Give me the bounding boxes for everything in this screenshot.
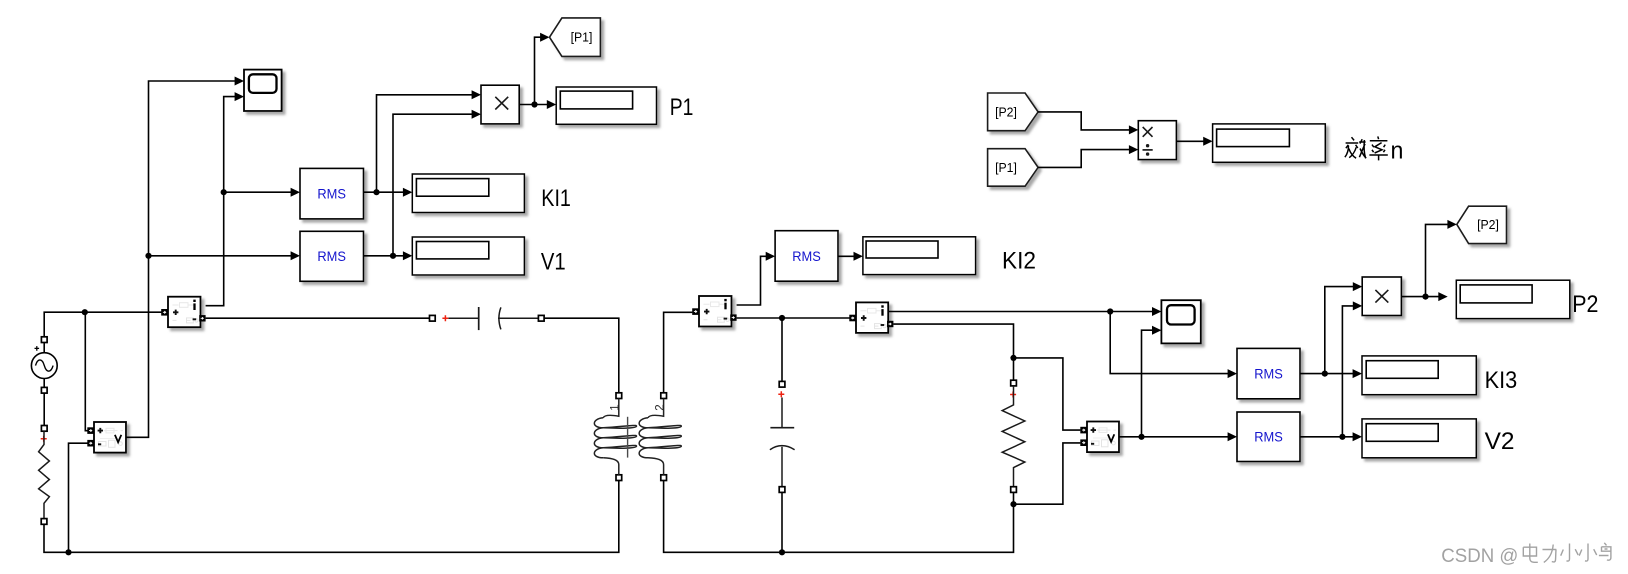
wire: I3 minus to load resistor R2 [893, 324, 1013, 355]
junction node L (V2- tap) [1010, 501, 1016, 507]
junction node C (RMS2 tap) [145, 251, 300, 260]
ammeter I1 [161, 297, 205, 328]
label KI1 [541, 186, 571, 212]
label V1 [541, 249, 566, 275]
wire: V2+ tap [1014, 358, 1081, 430]
watermark hanzi li [1543, 545, 1557, 563]
wire: V2- tap [1014, 443, 1081, 504]
wire: V2 out to RMS5 [1119, 432, 1237, 441]
RMS block RMS4 [1237, 348, 1300, 398]
wire: divide to efficiency display [1176, 137, 1212, 146]
svg-text:KI1: KI1 [541, 186, 571, 212]
wire: V1 out to scope/RMS2 riser [126, 81, 242, 437]
svg-text:[P1]: [P1] [571, 30, 593, 45]
RMS block RMS2 [300, 231, 364, 281]
watermark hanzi niao [1599, 543, 1611, 560]
wire: I3 signal to scope2 [888, 307, 1161, 316]
junction node F [390, 110, 481, 259]
resistor R1 [39, 426, 50, 525]
RMS block RMS5 [1237, 412, 1300, 462]
wire: I1 signal to scope1/RMS1 riser [206, 97, 243, 306]
display V2 [1362, 419, 1476, 458]
secondary winding [639, 399, 681, 475]
watermark hanzi xiao2 [1579, 544, 1596, 562]
svg-text:[P2]: [P2] [1477, 217, 1499, 232]
svg-text:RMS: RMS [317, 186, 346, 202]
display efficiency n [1213, 124, 1326, 162]
wire: secondary bottom rail [664, 481, 1014, 553]
watermark CSDN [1441, 545, 1518, 567]
wire: RMS4 to display KI3 [1300, 369, 1362, 378]
voltmeter V1 [87, 422, 126, 453]
svg-text:CSDN @: CSDN @ [1441, 545, 1518, 567]
junction node G [531, 33, 549, 108]
label KI2 [1002, 249, 1036, 275]
wire: from [P1] to divide [1038, 145, 1138, 167]
junction node N [1322, 282, 1362, 377]
wire: product U2 to display P2 [1401, 292, 1447, 301]
wire: product U1 to display P1 [519, 100, 556, 109]
display P2 [1456, 280, 1570, 318]
scope Scope1 [235, 70, 282, 111]
label efficiency: hanzi xiao [1345, 137, 1366, 158]
wire: primary bottom rail [44, 480, 619, 552]
junction node B (V1- tap) [65, 443, 87, 555]
label P1 [670, 95, 694, 121]
junction node E [373, 90, 481, 195]
wire: I2 signal to RMS3 [737, 252, 776, 305]
from tag [P1] [988, 149, 1039, 187]
product block U2 (x) [1362, 277, 1401, 316]
svg-text:V1: V1 [541, 249, 566, 275]
watermark hanzi dian [1523, 544, 1538, 563]
svg-text:1: 1 [610, 404, 622, 410]
ammeter I2 [692, 296, 736, 327]
display KI1 [412, 174, 524, 213]
label efficiency: hanzi lu [1369, 136, 1387, 160]
svg-text:RMS: RMS [317, 248, 346, 264]
shunt capacitor C2 [770, 319, 795, 552]
junction node M [1138, 326, 1161, 440]
watermark hanzi xiao1 [1561, 544, 1578, 562]
svg-text:KI2: KI2 [1002, 249, 1036, 275]
label KI3 [1485, 368, 1518, 394]
from tag [P2] [988, 93, 1039, 131]
core [627, 417, 629, 458]
series capacitor C1 [430, 307, 545, 330]
primary winding [594, 399, 636, 475]
junction node D (RMS1 tap) [221, 188, 300, 197]
junction node J [1107, 308, 1237, 378]
svg-text:2: 2 [654, 404, 666, 410]
junction node K (V2+ tap) [1010, 355, 1016, 361]
label V2 [1485, 429, 1515, 455]
ammeter I3 [849, 302, 893, 333]
svg-text:[P1]: [P1] [995, 160, 1017, 175]
junction node P [1422, 220, 1456, 300]
wire: from [P2] to divide [1038, 112, 1138, 134]
svg-text:[P2]: [P2] [995, 104, 1017, 119]
AC source V [31, 337, 57, 393]
display KI2 [863, 237, 976, 275]
svg-text:RMS: RMS [792, 248, 821, 264]
wire: RMS3 to display KI2 [838, 252, 863, 261]
svg-text:RMS: RMS [1254, 429, 1283, 445]
junction node O [1339, 301, 1362, 440]
wire: I2 minus to ammeter I3 [737, 317, 850, 319]
svg-text:RMS: RMS [1254, 366, 1283, 382]
wire: RMS5 to display V2 [1300, 432, 1362, 441]
label P2 [1572, 292, 1598, 318]
wire: RMS1 to display KI1 [364, 188, 413, 197]
voltmeter V2 [1080, 422, 1119, 453]
svg-text:P2: P2 [1572, 292, 1598, 318]
wire: source top rail to ammeter I1 [44, 312, 161, 337]
display P1 [556, 87, 656, 124]
svg-text:P1: P1 [670, 95, 694, 121]
RMS block RMS1 [300, 168, 364, 219]
label efficiency: n [1391, 139, 1404, 165]
RMS block RMS3 [775, 231, 838, 282]
wire: source to resistor R1 [43, 393, 45, 425]
goto tag [P2] [1457, 206, 1507, 243]
transformer T1 [594, 393, 681, 481]
wire: secondary top to ammeter I2 [664, 312, 693, 392]
product block U1 (x) [481, 85, 519, 124]
svg-text:KI3: KI3 [1485, 368, 1518, 394]
display KI3 [1362, 356, 1476, 395]
svg-text:n: n [1391, 139, 1404, 165]
scope Scope2 [1161, 300, 1200, 343]
load resistor R2 [1002, 355, 1025, 508]
divide block U3 (x over /) [1138, 121, 1176, 160]
svg-text:V2: V2 [1485, 429, 1515, 455]
goto tag [P1] [550, 18, 601, 57]
wire: RMS2 to display V1 [364, 251, 413, 260]
wire: C1 to transformer primary [544, 318, 619, 393]
junction node I (C2 top) [779, 315, 785, 321]
wire: I1 minus to series capacitor [206, 317, 430, 319]
junction node H (C2 bottom) [779, 549, 785, 555]
junction node A (V1+ tap) [82, 309, 88, 431]
display V1 [412, 237, 524, 275]
